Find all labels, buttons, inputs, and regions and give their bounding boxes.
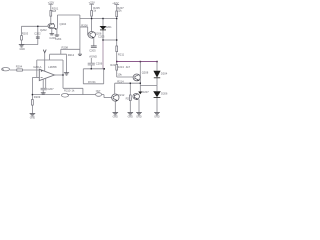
svg-text:C203: C203 bbox=[98, 34, 105, 38]
svg-text:C202: C202 bbox=[34, 32, 41, 36]
svg-text:GND: GND bbox=[30, 117, 36, 120]
svg-text:R210: R210 bbox=[64, 88, 71, 92]
svg-text:Q212: Q212 bbox=[118, 93, 125, 97]
svg-text:C207: C207 bbox=[47, 87, 54, 91]
svg-text:C206: C206 bbox=[96, 61, 103, 65]
svg-text:R206: R206 bbox=[81, 23, 88, 27]
svg-text:C205: C205 bbox=[89, 49, 96, 53]
svg-text:Q204: Q204 bbox=[60, 22, 67, 26]
svg-text:R213: R213 bbox=[117, 65, 124, 69]
svg-text:R204: R204 bbox=[16, 65, 23, 69]
svg-text:10k: 10k bbox=[117, 72, 122, 76]
svg-text:R208: R208 bbox=[62, 46, 69, 50]
svg-text:D206: D206 bbox=[161, 91, 168, 95]
svg-text:R214: R214 bbox=[117, 80, 124, 84]
svg-text:+22V: +22V bbox=[89, 1, 96, 5]
svg-text:U201A: U201A bbox=[33, 65, 41, 69]
svg-text:R212: R212 bbox=[68, 53, 75, 57]
svg-text:GND: GND bbox=[154, 116, 160, 119]
svg-text:+22V: +22V bbox=[48, 1, 55, 5]
svg-text:RY201: RY201 bbox=[88, 81, 96, 84]
svg-text:GND: GND bbox=[128, 116, 134, 119]
svg-text:OUT: OUT bbox=[96, 91, 101, 93]
svg-text:Q208: Q208 bbox=[142, 70, 149, 74]
svg-text:4k7: 4k7 bbox=[126, 65, 131, 69]
svg-text:GND: GND bbox=[20, 48, 26, 51]
svg-text:R211: R211 bbox=[118, 53, 125, 57]
svg-text:22k: 22k bbox=[117, 9, 122, 13]
svg-text:D201: D201 bbox=[105, 25, 112, 29]
svg-text:R203: R203 bbox=[22, 32, 29, 36]
svg-text:IN: IN bbox=[2, 69, 5, 71]
svg-text:GND: GND bbox=[136, 116, 142, 119]
svg-text:6k8: 6k8 bbox=[52, 9, 57, 13]
svg-text:D204: D204 bbox=[161, 71, 168, 75]
svg-text:AGND: AGND bbox=[89, 54, 97, 58]
svg-text:C204: C204 bbox=[55, 37, 62, 41]
svg-text:Q202: Q202 bbox=[40, 28, 47, 32]
svg-text:D207: D207 bbox=[142, 90, 149, 94]
svg-text:+22V: +22V bbox=[112, 1, 119, 5]
svg-text:R209: R209 bbox=[34, 95, 41, 99]
svg-text:LM358: LM358 bbox=[48, 65, 57, 69]
svg-text:GND: GND bbox=[113, 116, 119, 119]
